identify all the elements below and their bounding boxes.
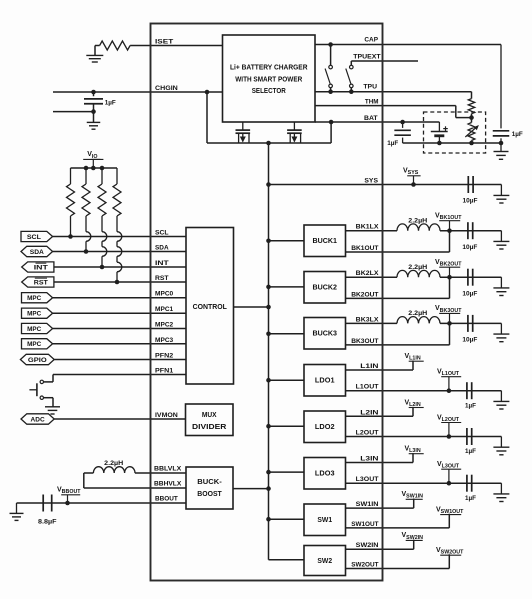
svg-text:10µF: 10µF — [462, 337, 477, 344]
svg-text:ISET: ISET — [155, 39, 174, 46]
svg-text:SW1: SW1 — [317, 517, 332, 524]
svg-text:1µF: 1µF — [465, 448, 476, 455]
svg-text:SDA: SDA — [30, 249, 44, 256]
svg-text:SW1OUT: SW1OUT — [351, 521, 379, 528]
svg-text:BBOUT: BBOUT — [155, 496, 179, 503]
svg-text:L2OUT: L2OUT — [356, 430, 380, 437]
svg-text:2.2µH: 2.2µH — [408, 310, 427, 317]
svg-text:MPC: MPC — [27, 295, 41, 302]
svg-text:WITH SMART POWER: WITH SMART POWER — [235, 76, 302, 83]
svg-text:TPU: TPU — [363, 84, 377, 91]
svg-text:MPC: MPC — [27, 341, 41, 348]
svg-text:8.8µF: 8.8µF — [38, 518, 57, 525]
svg-text:SELECTOR: SELECTOR — [252, 88, 286, 95]
svg-text:10µF: 10µF — [462, 244, 477, 251]
svg-text:1µF: 1µF — [465, 402, 476, 409]
svg-text:MPC1: MPC1 — [155, 306, 173, 313]
svg-text:LDO2: LDO2 — [315, 424, 335, 431]
svg-text:GPIO: GPIO — [28, 357, 47, 364]
svg-text:RST: RST — [34, 279, 48, 286]
svg-text:BK2LX: BK2LX — [356, 270, 379, 277]
svg-text:TPUEXT: TPUEXT — [353, 54, 381, 61]
svg-text:PFN2: PFN2 — [155, 353, 173, 360]
svg-text:1µF: 1µF — [387, 140, 398, 147]
svg-text:10µF: 10µF — [462, 290, 477, 297]
svg-text:IVMON: IVMON — [155, 412, 178, 419]
svg-text:DIVIDER: DIVIDER — [192, 424, 226, 431]
svg-text:1µF: 1µF — [105, 100, 116, 107]
svg-text:RST: RST — [155, 275, 169, 282]
svg-text:SW2OUT: SW2OUT — [351, 562, 379, 569]
svg-text:PFN1: PFN1 — [155, 368, 173, 375]
svg-text:MPC: MPC — [27, 311, 41, 318]
svg-text:SYS: SYS — [364, 177, 378, 184]
svg-text:BBHVLX: BBHVLX — [154, 481, 182, 488]
svg-text:BK3OUT: BK3OUT — [351, 338, 379, 345]
svg-text:BAT: BAT — [364, 115, 378, 122]
svg-text:INT: INT — [155, 260, 170, 267]
svg-text:CONTROL: CONTROL — [193, 304, 228, 311]
svg-text:ADC: ADC — [31, 416, 45, 423]
svg-text:1µF: 1µF — [512, 131, 523, 138]
svg-text:BBLVLX: BBLVLX — [154, 466, 182, 473]
svg-text:LDO3: LDO3 — [315, 471, 335, 478]
svg-text:Li+ BATTERY CHARGER: Li+ BATTERY CHARGER — [230, 64, 308, 71]
svg-text:THM: THM — [365, 99, 379, 106]
svg-text:MPC3: MPC3 — [155, 337, 173, 344]
svg-text:1µF: 1µF — [465, 495, 476, 502]
svg-text:BK2OUT: BK2OUT — [351, 291, 379, 298]
svg-text:CHGIN: CHGIN — [155, 85, 178, 92]
svg-text:BUCK3: BUCK3 — [313, 331, 338, 338]
svg-text:L1IN: L1IN — [360, 363, 378, 370]
svg-text:L3OUT: L3OUT — [356, 476, 380, 483]
svg-text:BK3LX: BK3LX — [356, 316, 379, 323]
svg-text:SCL: SCL — [155, 230, 169, 237]
svg-text:BOOST: BOOST — [197, 491, 222, 498]
svg-text:LDO1: LDO1 — [315, 378, 335, 385]
svg-text:L1OUT: L1OUT — [356, 384, 380, 391]
svg-text:2.2µH: 2.2µH — [408, 264, 427, 271]
svg-text:BUCK1: BUCK1 — [313, 238, 338, 245]
svg-text:L3IN: L3IN — [360, 456, 378, 463]
svg-text:MPC0: MPC0 — [155, 291, 173, 298]
svg-text:MPC: MPC — [27, 326, 41, 333]
svg-text:BK1OUT: BK1OUT — [351, 245, 379, 252]
svg-text:SCL: SCL — [27, 234, 41, 241]
svg-text:INT: INT — [34, 264, 48, 271]
svg-text:CAP: CAP — [364, 37, 378, 44]
svg-text:MUX: MUX — [202, 412, 217, 419]
svg-text:10µF: 10µF — [463, 198, 478, 205]
svg-text:MPC2: MPC2 — [155, 322, 173, 329]
svg-text:SW1IN: SW1IN — [356, 501, 379, 508]
svg-text:2.2µH: 2.2µH — [408, 217, 427, 224]
svg-text:2.2µH: 2.2µH — [104, 460, 123, 467]
svg-text:SW2IN: SW2IN — [356, 542, 379, 549]
svg-text:BK1LX: BK1LX — [356, 224, 379, 231]
svg-text:L2IN: L2IN — [360, 409, 378, 416]
svg-text:SDA: SDA — [155, 245, 169, 252]
svg-text:SW2: SW2 — [317, 558, 332, 565]
svg-text:BUCK-: BUCK- — [197, 479, 222, 486]
svg-text:BUCK2: BUCK2 — [313, 285, 338, 292]
